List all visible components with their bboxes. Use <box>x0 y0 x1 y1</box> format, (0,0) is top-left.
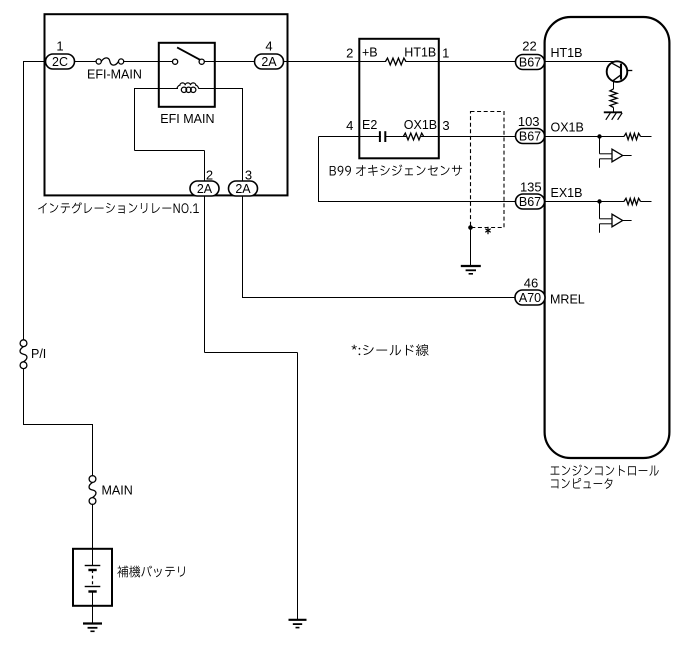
svg-text:MAIN: MAIN <box>102 484 133 498</box>
svg-text:+B: +B <box>362 46 378 60</box>
svg-text:HT1B: HT1B <box>404 46 436 60</box>
svg-text:4: 4 <box>346 118 353 133</box>
svg-text:135: 135 <box>520 179 542 194</box>
svg-text:EFI-MAIN: EFI-MAIN <box>87 67 142 81</box>
svg-text:MREL: MREL <box>550 293 585 307</box>
svg-text:B67: B67 <box>519 195 541 209</box>
svg-text:E2: E2 <box>362 118 377 132</box>
svg-text:EX1B: EX1B <box>551 186 583 200</box>
svg-text:2A: 2A <box>197 182 213 196</box>
svg-text:OX1B: OX1B <box>404 118 437 132</box>
svg-text:22: 22 <box>522 39 536 54</box>
svg-text:B67: B67 <box>519 55 541 69</box>
svg-text:2: 2 <box>346 46 353 61</box>
svg-text:46: 46 <box>524 276 538 291</box>
svg-text:A70: A70 <box>519 291 541 305</box>
svg-text:HT1B: HT1B <box>551 46 583 60</box>
svg-text:3: 3 <box>245 168 252 183</box>
svg-text:1: 1 <box>442 46 449 61</box>
svg-text:3: 3 <box>442 118 449 133</box>
svg-text:OX1B: OX1B <box>551 121 584 135</box>
svg-text:103: 103 <box>518 114 540 129</box>
svg-text:2A: 2A <box>235 182 251 196</box>
svg-text:4: 4 <box>265 39 272 54</box>
svg-text:2C: 2C <box>52 55 68 69</box>
svg-text:2A: 2A <box>261 55 277 69</box>
svg-text:B67: B67 <box>519 129 541 143</box>
svg-text:EFI MAIN: EFI MAIN <box>160 112 214 126</box>
svg-text:1: 1 <box>56 39 63 54</box>
svg-text:P/I: P/I <box>31 347 46 361</box>
svg-text:2: 2 <box>206 168 213 183</box>
